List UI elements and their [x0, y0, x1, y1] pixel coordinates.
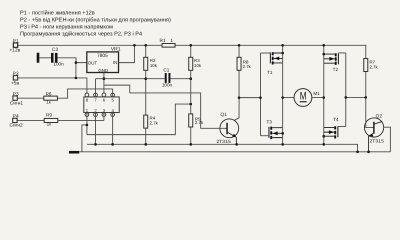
svg-text:Сигн1: Сигн1 — [10, 100, 24, 106]
wire gate column to R7 column — [346, 96, 366, 98]
wire T3 column to rail — [282, 98, 284, 145]
svg-text:M: M — [300, 91, 307, 103]
svg-text:R6: R6 — [46, 91, 52, 96]
svg-text:+5в: +5в — [11, 80, 19, 86]
wire VR1 IN to rail — [119, 45, 135, 62]
wire R5 bottom to rail — [190, 127, 192, 144]
svg-text:Програмування здійснюється чер: Програмування здійснюється через P2, P3 … — [20, 31, 142, 38]
svg-text:M1: M1 — [313, 91, 320, 96]
transistor T1 — [260, 52, 282, 75]
svg-text:Сигн2: Сигн2 — [10, 123, 24, 129]
svg-text:2.7k: 2.7k — [369, 64, 378, 69]
svg-text:7805: 7805 — [97, 53, 108, 59]
svg-text:C1: C1 — [163, 67, 169, 72]
IC DD1 PIC box — [84, 97, 119, 113]
wire ground rail B — [79, 151, 390, 153]
wire top rail after R1 — [175, 44, 366, 46]
wire T1 column — [282, 45, 284, 97]
wire VR1 GND down to gnd line — [103, 73, 105, 97]
svg-text:2.7k: 2.7k — [242, 64, 251, 69]
svg-text:100n: 100n — [53, 62, 64, 67]
transistor T4 — [324, 117, 346, 139]
svg-text:2T315: 2T315 — [369, 139, 384, 144]
svg-text:+12в: +12в — [10, 47, 21, 53]
wire R8 column to Q1 collector — [227, 98, 239, 125]
wire C2 to C3 — [39, 57, 51, 59]
wire top rail +12v — [18, 44, 162, 46]
svg-text:2.7k: 2.7k — [150, 121, 159, 126]
capacitor C3 — [51, 47, 64, 67]
terminal P3 — [10, 91, 24, 106]
svg-text:2T315: 2T315 — [216, 139, 231, 144]
resistor R2 10k — [144, 45, 158, 78]
transistor T3 — [260, 119, 282, 139]
wire gates line R8 to T1 T3 gate column — [239, 97, 260, 99]
wire T2 T4 gate column — [345, 53, 347, 127]
resistor R5 2.7k — [189, 114, 204, 127]
wire C1 right to R3 column — [170, 78, 190, 80]
resistor R9 — [44, 113, 58, 127]
transistor T2 — [324, 53, 346, 72]
svg-text:T4: T4 — [333, 117, 339, 122]
svg-text:P3 і P4 - ноги керування напря: P3 і P4 - ноги керування напрямком — [20, 24, 113, 31]
terminal P4 — [10, 114, 24, 129]
wire P4 to R9 — [17, 119, 44, 121]
wire ground rail A — [87, 144, 358, 152]
voltage regulator VR1 7805 — [87, 47, 121, 73]
wire +5 column — [75, 63, 77, 78]
wire pin5 stem — [112, 89, 114, 97]
svg-text:VR1: VR1 — [111, 47, 121, 53]
wire P3 signal line to pin5 — [57, 89, 112, 98]
resistor R8 2.7k — [237, 45, 252, 97]
IC pin pads top — [85, 93, 114, 97]
wire R3 column middle — [190, 79, 192, 114]
transistor Q2 — [364, 97, 390, 151]
wire pin7 line to C1 — [96, 79, 165, 97]
wire R9 to pin3 — [58, 119, 104, 121]
svg-text:10k: 10k — [194, 63, 202, 68]
transistor Q1 — [216, 112, 238, 145]
wire pin6 stem jog — [104, 85, 220, 128]
resistor R3 10k — [189, 45, 202, 78]
wire T1 T3 gate column — [259, 53, 261, 136]
pin numbers top row 8 7 6 5 — [86, 98, 115, 103]
wire pin3 stem — [103, 113, 105, 121]
resistor R4 2.7k — [144, 115, 159, 128]
svg-text:R1: R1 — [160, 38, 166, 44]
svg-text:100n: 100n — [162, 83, 173, 88]
svg-text:T3: T3 — [267, 119, 273, 124]
svg-text:GND: GND — [98, 68, 108, 73]
note text block — [20, 10, 171, 38]
capacitor C1 100n — [162, 67, 173, 87]
wire T2 column — [323, 45, 325, 97]
svg-text:T2: T2 — [333, 67, 339, 72]
svg-text:C3: C3 — [52, 47, 58, 53]
resistor R7 2.7k — [364, 45, 379, 97]
svg-text:Q2: Q2 — [376, 114, 383, 120]
wire P3 to R6 — [17, 97, 44, 99]
terminal P1 — [10, 38, 21, 53]
svg-text:2.7k: 2.7k — [195, 120, 204, 125]
capacitor C2 plate — [37, 53, 40, 63]
pin numbers bottom row 1 2 3 4 — [86, 108, 115, 113]
wire C3 to VR1 OUT with jog — [58, 58, 87, 63]
wire pin1 stem and branch — [82, 113, 87, 152]
terminal P2 — [11, 71, 19, 87]
svg-text:10k: 10k — [150, 63, 158, 68]
svg-text:P2 - +5в від КРЕН-ки (потрібна: P2 - +5в від КРЕН-ки (потрібна тільки дл… — [20, 17, 171, 24]
wire P2 to pin8 — [18, 78, 87, 97]
wire pin2 stem to rail — [95, 113, 97, 145]
ground — [69, 151, 79, 154]
resistor R6 — [44, 91, 58, 104]
wire R4 bottom to rail — [145, 128, 147, 144]
svg-text:OUT: OUT — [88, 60, 98, 65]
IC pin pads bottom — [85, 113, 114, 117]
wire pin1 line to R5 top — [87, 104, 191, 135]
svg-text:1: 1 — [170, 38, 173, 44]
svg-text:T1: T1 — [267, 70, 273, 75]
svg-text:Q1: Q1 — [220, 112, 227, 118]
svg-text:IN: IN — [113, 60, 117, 65]
svg-text:P1 - постійне живлення +12в: P1 - постійне живлення +12в — [20, 10, 95, 17]
motor M1 — [283, 89, 324, 107]
wire T4 column to rail — [323, 98, 325, 145]
svg-text:R9: R9 — [46, 113, 52, 118]
resistor R1 — [160, 38, 176, 47]
wire R4 column top — [145, 79, 147, 115]
wire pin4 stem to rail — [112, 113, 114, 145]
